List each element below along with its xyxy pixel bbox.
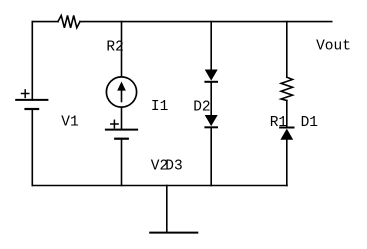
svg-text:R1: R1 <box>270 115 287 131</box>
diode D1 <box>280 128 293 140</box>
current source I1 <box>106 77 136 107</box>
svg-text:D3: D3 <box>165 159 182 175</box>
svg-text:V1: V1 <box>61 114 78 130</box>
wire ground stub <box>166 186 168 233</box>
wire between D2 and D3 <box>210 82 212 115</box>
wire bottom bus <box>32 185 287 187</box>
wire right branch upper <box>286 22 288 78</box>
wire right branch lower <box>286 140 288 186</box>
wire diode branch upper <box>210 22 212 70</box>
svg-text:Vout: Vout <box>316 38 351 54</box>
diode D3 <box>205 115 218 127</box>
resistor R1 <box>281 77 292 100</box>
wire middle branch mid <box>121 108 123 130</box>
wire left branch lower <box>31 109 33 186</box>
battery V2 <box>106 120 137 138</box>
battery V1 <box>16 90 47 109</box>
wire right branch mid <box>286 101 288 128</box>
wire top bus left segment <box>32 21 58 23</box>
wire diode branch lower <box>210 127 212 185</box>
wire middle branch upper <box>121 22 123 77</box>
svg-text:D2: D2 <box>193 99 210 115</box>
wire top bus right segment <box>80 21 332 23</box>
svg-text:D1: D1 <box>301 115 318 131</box>
svg-text:R2: R2 <box>106 39 123 55</box>
svg-text:I1: I1 <box>151 99 168 115</box>
wire left branch upper <box>31 22 33 100</box>
diode D2 <box>205 70 218 82</box>
resistor R2 <box>58 16 80 28</box>
ground <box>150 232 197 234</box>
wire middle branch lower <box>121 139 123 186</box>
